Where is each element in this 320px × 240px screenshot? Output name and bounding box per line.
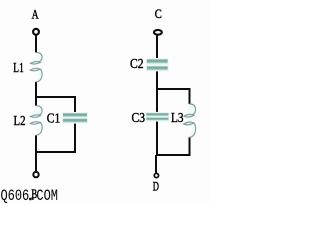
svg-text:C3: C3 bbox=[132, 111, 146, 126]
svg-text:A: A bbox=[32, 7, 39, 22]
svg-text:C2: C2 bbox=[130, 57, 144, 72]
svg-text:L1: L1 bbox=[13, 60, 23, 75]
svg-text:Q606.COM: Q606.COM bbox=[1, 187, 59, 204]
svg-text:L2: L2 bbox=[14, 113, 26, 128]
svg-text:C1: C1 bbox=[47, 112, 61, 127]
svg-text:D: D bbox=[153, 180, 159, 194]
svg-text:L3: L3 bbox=[171, 111, 184, 126]
svg-text:C: C bbox=[155, 6, 162, 21]
